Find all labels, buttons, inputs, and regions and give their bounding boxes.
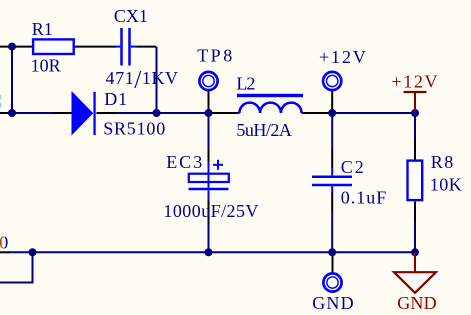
- svg-text:1000uF/25V: 1000uF/25V: [163, 201, 259, 221]
- svg-text:C2: C2: [341, 157, 366, 177]
- svg-text:10R: 10R: [31, 55, 61, 75]
- svg-text:+12V: +12V: [319, 47, 368, 67]
- svg-text:10K: 10K: [430, 174, 463, 194]
- svg-text:L2: L2: [236, 74, 254, 94]
- svg-text:TP8: TP8: [197, 46, 235, 66]
- svg-text:0.1uF: 0.1uF: [341, 188, 388, 208]
- svg-text:D1: D1: [104, 89, 128, 109]
- svg-text:R1: R1: [32, 19, 53, 39]
- svg-text:GND: GND: [397, 293, 437, 313]
- svg-text:CX1: CX1: [114, 6, 148, 26]
- svg-text:+12V: +12V: [391, 72, 439, 92]
- svg-text:GND: GND: [312, 293, 355, 313]
- svg-text:5uH/2A: 5uH/2A: [236, 120, 292, 140]
- svg-text:R8: R8: [431, 152, 455, 172]
- svg-text:EC3: EC3: [166, 152, 204, 172]
- svg-text:SR5100: SR5100: [103, 118, 166, 138]
